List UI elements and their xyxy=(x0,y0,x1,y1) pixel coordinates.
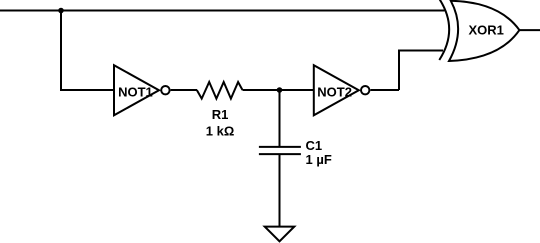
wire XOR lower input xyxy=(398,50,443,52)
wire R1 to NOT2 xyxy=(243,89,315,91)
capacitor C1 xyxy=(259,147,301,154)
svg-text:1 kΩ: 1 kΩ xyxy=(206,123,235,138)
resistor R1 xyxy=(197,82,243,99)
wire left vertical drop xyxy=(60,11,62,91)
svg-text:NOT2: NOT2 xyxy=(317,85,352,100)
inverter NOT1 xyxy=(114,65,170,115)
svg-text:R1: R1 xyxy=(212,107,229,122)
wire C1 to ground xyxy=(279,154,281,227)
wire NOT1 output to R1 xyxy=(171,89,197,91)
wire NOT2 output xyxy=(370,89,399,91)
inverter NOT2 xyxy=(314,65,370,115)
wire XOR output xyxy=(519,29,540,31)
wire NOT1 input xyxy=(60,89,114,91)
ground xyxy=(265,227,295,242)
wire riser vertical xyxy=(398,51,400,91)
xor gate XOR1 xyxy=(439,0,519,61)
svg-text:C1: C1 xyxy=(306,138,323,153)
node junction RC xyxy=(277,87,283,93)
wire junction to C1 xyxy=(279,90,281,147)
svg-text:NOT1: NOT1 xyxy=(118,85,153,100)
svg-text:XOR1: XOR1 xyxy=(468,23,503,38)
wire top horizontal xyxy=(0,10,445,12)
svg-text:1 µF: 1 µF xyxy=(306,152,332,167)
node junction top xyxy=(58,8,64,14)
